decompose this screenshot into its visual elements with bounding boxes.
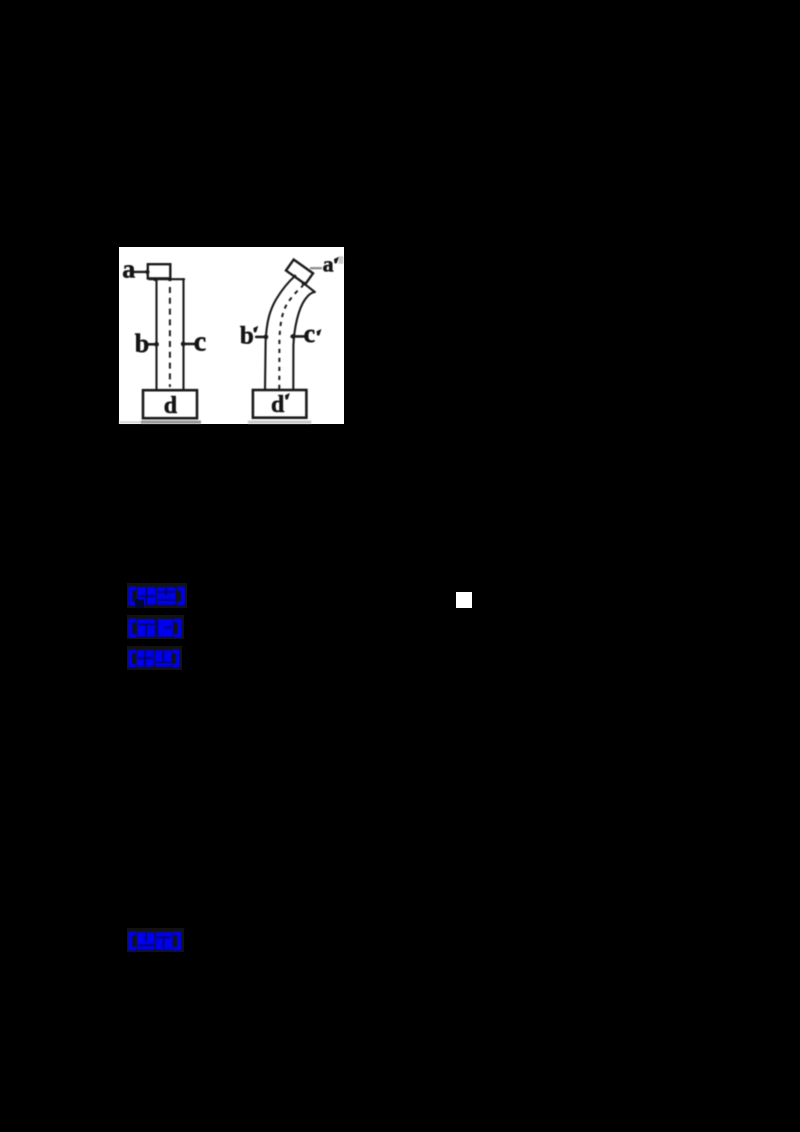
svg-text:a: a <box>122 255 135 284</box>
white square bullet <box>456 592 472 608</box>
b pointer dash <box>147 343 157 346</box>
left coleoptile left wall <box>155 279 157 390</box>
a' pointer dash <box>311 267 321 269</box>
blue section header 1 (kaodian) <box>127 583 187 608</box>
blue section header 2 (fenxi) <box>127 615 184 639</box>
prime of b' <box>254 326 258 332</box>
base block d' <box>253 390 307 418</box>
right coleoptile right wall (curved up to cut point) <box>293 292 315 390</box>
svg-text:d: d <box>164 393 178 419</box>
blue section header 4 (dianping) <box>127 928 184 952</box>
right coleoptile dashed axis <box>279 286 303 390</box>
base block d <box>143 390 197 418</box>
dark navy artifact under header 1 <box>135 599 144 608</box>
left coleoptile dashed axis <box>169 287 171 387</box>
prime of d' <box>285 393 289 399</box>
svg-text:d: d <box>271 392 285 418</box>
junction dots <box>145 270 306 347</box>
svg-text:c: c <box>304 319 316 348</box>
figure: phototropism coleoptile diagram <box>119 247 344 424</box>
scan shadow strip under d' <box>248 421 311 424</box>
svg-text:b: b <box>240 323 254 350</box>
c' pointer dash <box>292 335 305 338</box>
a pointer dash <box>134 271 148 273</box>
scan speck near a' <box>339 256 344 264</box>
svg-text:b: b <box>135 329 149 358</box>
scan shadow strip under d <box>141 421 201 424</box>
cut edge from tip point to cap <box>304 283 315 292</box>
prime of a' <box>334 257 338 263</box>
tilted tip cap a' <box>286 260 313 285</box>
left coleoptile tip cap a <box>148 264 171 278</box>
left coleoptile top shoulder line <box>149 278 184 280</box>
prime of c' <box>317 329 321 335</box>
left coleoptile right wall <box>182 279 184 390</box>
blue section header 3 (jieda) <box>127 646 182 670</box>
svg-text:c: c <box>194 326 206 357</box>
right coleoptile left wall (curved) <box>265 277 295 391</box>
svg-text:a: a <box>323 251 334 276</box>
c pointer dash <box>183 343 195 346</box>
b' pointer dash <box>256 336 266 339</box>
